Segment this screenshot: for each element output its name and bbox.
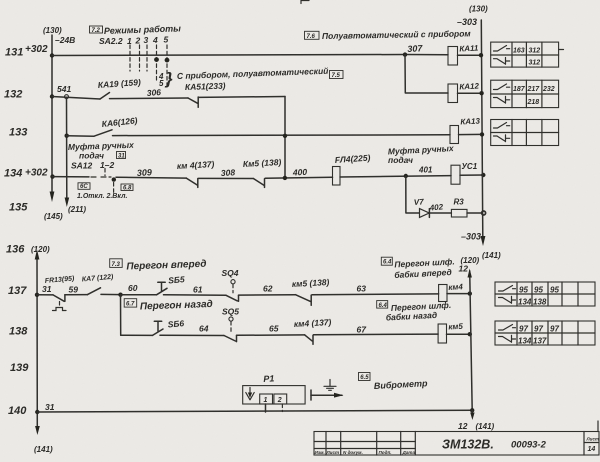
right bus -303: [481, 20, 483, 238]
tag box 6.5: [359, 373, 371, 381]
relay coil KA13: [450, 126, 459, 144]
wire 400: [265, 176, 332, 179]
P1 terminal 1: [260, 394, 273, 404]
wire vertical junction x285: [284, 97, 286, 179]
tag box 7.3: [110, 259, 123, 268]
tag box 6.4 top: [381, 257, 392, 265]
wire P1 term2 dashed: [281, 404, 283, 412]
contact KM4(137) NC on line138: [305, 335, 312, 341]
wire 133 left: [67, 135, 94, 138]
fuse FU4(225): [333, 167, 341, 186]
wire V7 branch vertical: [406, 176, 419, 213]
node line134/bus: [50, 174, 54, 178]
right edge frame mark: [597, 421, 599, 432]
contact KA19 (NO): [100, 93, 110, 100]
node line132/bus: [50, 94, 54, 98]
contact table KM5: [495, 321, 595, 345]
top edge scan mark: [301, 1, 309, 4]
pushbutton SB6: [153, 329, 164, 335]
node 60 junction: [118, 293, 122, 297]
coil US1: [451, 165, 460, 184]
SA2.2 contact dots pos4 pos5: [154, 57, 159, 62]
title block small captions: [315, 450, 416, 455]
wire 308: [198, 177, 253, 179]
node line131/bus: [50, 53, 54, 57]
wire 134 left: [53, 176, 90, 178]
tag box 7.4: [305, 31, 320, 39]
left bus +302: [51, 35, 53, 193]
wire KM4 to bus: [447, 293, 470, 295]
contact table KA11: [491, 42, 564, 67]
contact KM5(138) NC on line137: [296, 295, 311, 302]
wire drop 137-138: [120, 295, 122, 336]
resistor R3: [451, 209, 467, 217]
wire 59: [65, 294, 88, 296]
contact FR13 thermal NC: [53, 295, 64, 301]
contact KA6 (NO): [94, 130, 112, 136]
tag box 68: [121, 184, 133, 191]
wire 541 drop: [66, 99, 68, 201]
wire 400-401: [340, 176, 451, 177]
lower right bus wire 12: [470, 271, 473, 410]
wire P1 shield to ground: [310, 390, 312, 400]
lower left bus wire 31: [36, 257, 38, 428]
node line140/bus12: [470, 408, 474, 412]
pushbutton SB5: [157, 288, 168, 295]
switch SA12 (dashes + dot): [91, 176, 98, 178]
diode V7: [420, 209, 430, 218]
wire KA11 to bus: [458, 54, 482, 56]
contactor coil KM4: [439, 285, 447, 302]
wire 309: [116, 176, 186, 179]
node line133 tap: [65, 134, 69, 138]
wire KA13 to bus: [459, 133, 483, 135]
wire KA12 to bus: [458, 92, 482, 94]
contact KA7 (NO): [88, 288, 101, 295]
wire 132 left: [52, 97, 100, 100]
contact table KA12: [491, 80, 559, 107]
tag box 6.7: [124, 299, 137, 307]
wire 402: [429, 212, 451, 214]
wire KM5 to bus: [447, 333, 470, 335]
wire US1 to bus: [460, 174, 483, 176]
tag box 7.2: [90, 26, 103, 33]
contact KA51 (NC): [188, 98, 197, 103]
node 307: [403, 52, 407, 56]
wire 131: [52, 55, 448, 56]
contact KM4(137) NC on line134: [186, 178, 197, 185]
tag box 7.5: [330, 71, 344, 79]
contact table KA13: [491, 120, 559, 146]
wire P1 term1 to line140: [265, 404, 267, 412]
tag box 3.1: [117, 152, 126, 159]
wire KA12 branch: [405, 55, 448, 93]
node line140/bus31: [35, 410, 39, 414]
wire 140: [37, 410, 472, 412]
relay coil KA11: [448, 47, 458, 66]
wire 137 left: [37, 294, 53, 296]
switch SA2.2 dashed contact strokes: [130, 45, 167, 86]
P1 terminal 2: [274, 394, 287, 404]
P1 sensor symbol: [249, 388, 251, 397]
contact table KM4: [495, 282, 595, 306]
device P1 vibrometer box: [243, 386, 305, 404]
title block: [314, 432, 599, 456]
contact KM5(138) NC on line134: [253, 179, 264, 186]
ground symbol: [329, 380, 331, 387]
tag box 66: [78, 183, 90, 190]
wire 60: [121, 294, 157, 296]
node 133/x285: [283, 134, 287, 138]
bus 12 bottom arrow: [471, 410, 473, 415]
tag box 6.4 bottom: [377, 301, 388, 309]
wire R3 to bus: [467, 212, 484, 214]
wire 138 left: [121, 334, 153, 336]
node V7 branch: [404, 174, 408, 178]
node line137/bus: [35, 293, 39, 297]
scan texture overlay: [0, 0, 1, 1]
contactor coil KM5: [438, 324, 446, 343]
relay coil KA12: [448, 84, 458, 103]
